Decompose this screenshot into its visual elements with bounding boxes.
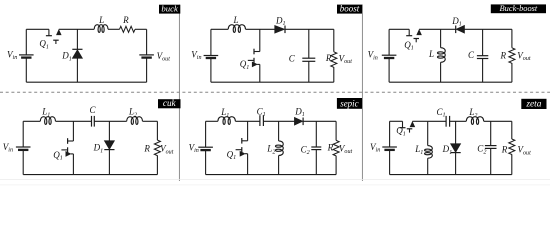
wire buck-boost D1-C	[465, 28, 483, 30]
svg-text:R: R	[143, 143, 150, 153]
wire zeta C2 lead lower	[490, 148, 492, 174]
wire boost Q1 source	[259, 64, 261, 82]
svg-text:L2: L2	[266, 144, 275, 156]
diode D1 (buck-boost)	[455, 26, 457, 34]
inductor L (boost)	[228, 25, 245, 33]
sepic title box	[337, 98, 362, 109]
wire boost D1-C	[285, 28, 334, 30]
wire sepic C1-D1	[263, 120, 294, 122]
wire boost bottom	[211, 81, 334, 83]
wire buck bottom	[26, 81, 146, 83]
svg-text:L1: L1	[220, 107, 229, 119]
wire cuk L1-C	[56, 120, 92, 122]
svg-text:R: R	[500, 50, 507, 60]
source Vin (cuk)	[16, 146, 31, 148]
svg-text:L2: L2	[468, 107, 477, 119]
wire sepic Q1 source	[247, 154, 249, 175]
transistor Q1 (boost)	[254, 51, 260, 53]
resistor R (boost)	[331, 52, 337, 68]
wire cuk left rail	[22, 121, 24, 147]
wire sepic C2 lead upper	[315, 121, 317, 147]
wire buck-boost L lead lower	[440, 62, 442, 82]
wire zeta D1 lead upper	[455, 121, 457, 143]
wire zeta C1-D1	[450, 120, 467, 122]
svg-text:Vout: Vout	[517, 51, 531, 63]
wire sepic L2 lead upper	[278, 121, 280, 141]
source Vin (sepic)	[198, 146, 213, 148]
resistor R (sepic)	[333, 140, 339, 156]
wire cuk C-L2	[94, 120, 126, 122]
wire zeta C2 lead upper	[490, 121, 492, 145]
cuk title box	[158, 99, 181, 108]
capacitor C (boost)	[302, 57, 315, 59]
capacitor C (buck-boost)	[477, 55, 488, 57]
inductor L (buck-boost)	[437, 48, 445, 63]
wire buck-boost right rail upper	[511, 29, 513, 48]
wire buck-boost C lead lower	[482, 59, 484, 83]
svg-text:C: C	[468, 50, 475, 60]
wire cuk D1 lead upper	[108, 121, 110, 140]
svg-text:sepic: sepic	[340, 99, 359, 109]
wire cuk right rail upper	[156, 121, 158, 140]
zeta title box	[521, 99, 546, 109]
wire boost C lead lower	[308, 61, 310, 82]
wire sepic L1-C1	[235, 120, 260, 122]
wire cuk bottom	[23, 174, 157, 176]
wire buck left rail	[25, 29, 27, 55]
svg-text:boost: boost	[340, 3, 360, 13]
svg-text:R: R	[327, 142, 334, 152]
svg-text:Q1: Q1	[227, 149, 237, 161]
svg-text:zeta: zeta	[525, 100, 541, 110]
inductor L2 (sepic)	[275, 141, 283, 156]
wire buck-boost Q1-L	[419, 28, 441, 30]
wire buck-boost L-D1	[441, 28, 456, 30]
svg-text:D1: D1	[61, 51, 72, 63]
wire zeta Q1-L1	[412, 120, 427, 122]
capacitor C (cuk)	[91, 116, 93, 127]
svg-text:Q1: Q1	[240, 59, 250, 71]
wire buck top left	[26, 28, 49, 30]
wire boost C lead upper	[308, 29, 310, 58]
svg-text:D1: D1	[294, 106, 305, 118]
svg-text:D1: D1	[275, 15, 286, 27]
svg-text:Vout: Vout	[157, 51, 171, 63]
resistor R (zeta)	[509, 139, 515, 155]
wire buck D1 lead upper	[76, 29, 78, 49]
wire sepic top left	[206, 120, 218, 122]
wire boost left rail	[210, 29, 212, 55]
inductor L1 (zeta)	[425, 146, 433, 159]
diode D1 (boost)	[275, 25, 285, 33]
wire buck top right	[135, 28, 147, 30]
transistor Q1 (zeta)	[402, 121, 404, 127]
svg-text:Vout: Vout	[339, 53, 353, 65]
transistor Q1 (buck-boost)	[408, 29, 410, 35]
transistor Q1 (cuk)	[68, 140, 74, 142]
wire sepic Q1 drain	[247, 121, 249, 141]
wire cuk Q1 drain	[72, 121, 74, 141]
wire sepic D1-C2	[303, 120, 336, 122]
svg-text:L: L	[232, 15, 238, 25]
svg-text:C1: C1	[436, 107, 445, 119]
svg-text:R: R	[501, 145, 508, 155]
capacitor C2 (zeta)	[485, 145, 497, 147]
wire sepic bottom	[206, 174, 337, 176]
capacitor C1 (zeta)	[445, 116, 447, 127]
svg-text:C2: C2	[301, 144, 310, 156]
svg-text:cuk: cuk	[163, 98, 177, 108]
svg-text:Vout: Vout	[339, 143, 353, 155]
svg-text:L1: L1	[414, 144, 423, 156]
svg-text:Buck-boost: Buck-boost	[500, 4, 538, 13]
panel separator horizontal middle dashed	[0, 91, 550, 93]
svg-text:L2: L2	[128, 107, 137, 119]
transistor Q1 (sepic)	[242, 140, 248, 142]
wire buck right rail	[146, 29, 148, 55]
source Vin (boost)	[204, 55, 219, 57]
svg-text:C: C	[89, 105, 96, 115]
svg-text:Q1: Q1	[39, 39, 49, 51]
source Vin (buck-boost)	[382, 54, 397, 56]
inductor L (buck)	[94, 25, 108, 33]
diode D1 (sepic)	[294, 117, 302, 125]
wire zeta L2-C2	[484, 120, 512, 122]
svg-text:Vin: Vin	[7, 50, 17, 62]
diode D1 (zeta)	[451, 144, 461, 153]
svg-text:R: R	[122, 15, 129, 25]
wire sepic right rail lower	[335, 156, 337, 175]
svg-text:C1: C1	[257, 106, 266, 118]
resistor R (buck-boost)	[509, 48, 515, 64]
resistor R (buck)	[120, 26, 136, 32]
inductor L2 (zeta)	[466, 117, 483, 125]
resistor R (cuk)	[154, 140, 160, 156]
bottom edge faint dashed line	[0, 184, 550, 186]
svg-text:Vin: Vin	[370, 142, 380, 154]
svg-text:Vout: Vout	[518, 145, 532, 157]
wire zeta L1 lead upper	[427, 121, 429, 145]
svg-text:L: L	[98, 15, 104, 25]
svg-text:buck: buck	[161, 3, 179, 13]
wire buck-boost C lead upper	[482, 29, 484, 55]
svg-text:R: R	[325, 53, 332, 63]
panel separator vertical left	[178, 5, 180, 182]
wire boost Q1 drain	[259, 29, 261, 51]
wire cuk top left	[23, 120, 40, 122]
svg-text:Q1: Q1	[53, 150, 63, 162]
panel separator vertical right	[361, 5, 363, 182]
wire buck-boost top left	[389, 28, 409, 30]
diode D1 (cuk)	[104, 141, 114, 150]
wire cuk Q1 source	[72, 154, 74, 175]
wire boost top left	[211, 28, 228, 30]
inductor L1 (sepic)	[218, 117, 236, 125]
wire zeta bottom	[390, 174, 512, 176]
svg-text:D1: D1	[442, 144, 453, 156]
svg-text:D1: D1	[93, 143, 104, 155]
wire buck-boost right rail lower	[511, 63, 513, 82]
buck title box	[159, 5, 180, 14]
Buck-boost title box	[491, 4, 546, 13]
wire buck-boost top right	[483, 28, 512, 30]
source Vin (buck)	[19, 54, 34, 56]
capacitor C1 (sepic)	[259, 115, 261, 126]
wire buck D1 lead lower	[76, 58, 78, 82]
svg-text:Vin: Vin	[189, 142, 199, 154]
svg-text:Vin: Vin	[191, 50, 201, 62]
source Vin (zeta)	[382, 146, 397, 148]
transistor Q1 (buck)	[48, 29, 50, 35]
svg-text:Vin: Vin	[3, 142, 13, 154]
source Vout (buck)	[139, 54, 154, 56]
panel separator horizontal bottom dashed	[0, 179, 550, 181]
wire buck-boost left rail	[388, 29, 390, 55]
wire boost L-D1	[246, 28, 275, 30]
svg-text:L: L	[428, 49, 434, 59]
svg-text:Vin: Vin	[368, 50, 378, 62]
wire zeta D1 lead lower	[455, 153, 457, 175]
wire sepic left rail	[205, 121, 207, 147]
svg-text:Q1: Q1	[404, 40, 414, 52]
wire cuk D1 lead lower	[108, 150, 110, 175]
svg-text:Vout: Vout	[160, 144, 174, 156]
wire sepic right rail upper	[335, 121, 337, 140]
boost title box	[337, 5, 362, 14]
svg-text:L1: L1	[41, 107, 50, 119]
wire zeta left rail	[389, 121, 391, 147]
capacitor C2 (sepic)	[311, 146, 321, 148]
wire buck-boost bottom	[389, 81, 512, 83]
wire boost right rail upper	[333, 29, 335, 52]
wire zeta right rail lower	[511, 154, 513, 174]
inductor L1 (cuk)	[40, 117, 55, 125]
svg-text:D1: D1	[451, 16, 462, 28]
wire buck top mid	[59, 28, 94, 30]
wire buck L-R	[108, 28, 120, 30]
svg-text:C: C	[289, 53, 296, 63]
wire cuk top right	[143, 120, 158, 122]
wire zeta right rail upper	[511, 121, 513, 139]
wire zeta L1 lead lower	[427, 158, 429, 174]
wire zeta L1-C1	[428, 120, 446, 122]
inductor L2 (cuk)	[127, 117, 143, 125]
wire boost right rail lower	[333, 67, 335, 82]
wire sepic L2 lead lower	[278, 156, 280, 175]
wire zeta top left	[390, 120, 403, 122]
wire cuk right rail lower	[156, 155, 158, 174]
wire buck-boost L lead upper	[440, 29, 442, 47]
wire sepic C2 lead lower	[315, 150, 317, 175]
diode D1 (buck)	[72, 48, 82, 50]
